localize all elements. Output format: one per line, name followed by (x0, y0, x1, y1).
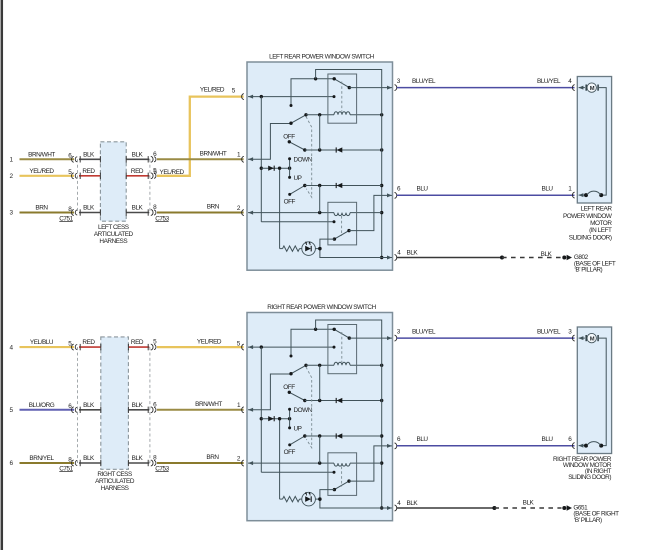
svg-text:BRN/WHT: BRN/WHT (28, 151, 55, 158)
wire vertical link upper right rear power window switch (319, 365, 321, 400)
wire YEL/RED circuit 2 (20, 175, 75, 177)
resistor R1 left rear power window switch (283, 246, 300, 251)
wire relay-1 coil line right rear power window switch (306, 364, 334, 366)
svg-text:ARTICULATED: ARTICULATED (95, 478, 135, 485)
right rear power window motor body (577, 327, 611, 454)
wire relay K2 common to pin4 right rear power window switch (320, 490, 392, 508)
wire BLU switch pin6 to motor pin1 (397, 194, 575, 196)
wire BRN/WHT from C753 to switch pin 1 (bottom) (157, 409, 244, 411)
wire diode D2 row left rear power window switch (305, 149, 382, 151)
svg-text:ARTICULATED: ARTICULATED (94, 231, 134, 238)
connector C753 symbol (151, 344, 153, 350)
wire BLK harness-left row 3 (79, 212, 100, 214)
wire relay-1 coil line left rear power window switch (306, 114, 334, 116)
wire YEL/RED from C753 to switch pin 5 (top) (157, 97, 244, 176)
wire BLK harness-left row 5 (79, 409, 101, 411)
resistor R1 right rear power window switch (283, 496, 300, 501)
harness box LEFT CESS ARTICULATED HARNESS (100, 142, 126, 221)
illumination branch wire right rear power window switch (279, 419, 281, 499)
wire motor bottom lead left rear power window motor (579, 194, 586, 196)
connector parens on left rear power window switch right edge (395, 85, 397, 91)
svg-text:LEFT REAR POWER WINDOW SWITCH: LEFT REAR POWER WINDOW SWITCH (269, 53, 375, 60)
svg-text:M: M (590, 336, 595, 342)
svg-text:DOWN: DOWN (294, 156, 313, 163)
svg-text:BLU/YEL: BLU/YEL (537, 328, 561, 335)
wire BLK harness-right row 5 (128, 409, 149, 411)
svg-text:(IN LEFT: (IN LEFT (589, 227, 612, 234)
svg-text:BLK: BLK (132, 402, 144, 409)
svg-text:BLK: BLK (407, 250, 419, 257)
wire pin5 feed inside left rear power window switch (248, 96, 334, 98)
motor symbol right rear power window motor (579, 337, 585, 339)
svg-text:BLK: BLK (83, 205, 95, 212)
svg-text:‘B’ PILLAR): ‘B’ PILLAR) (574, 517, 602, 524)
wire BLU switch pin6 to motor pin6 (bottom) (397, 445, 575, 447)
relay K1 armature right rear power window switch (334, 329, 349, 338)
wire BRN from C753 to switch pin 2 (157, 212, 244, 214)
switch blade middle left rear power window switch (289, 142, 305, 150)
wire top jumper left rear power window switch (316, 70, 382, 258)
switch blade upper (UP contact) left rear power window switch (291, 115, 306, 123)
wire BLK harness-right row 3 (126, 212, 149, 214)
svg-text:YEL/RED: YEL/RED (29, 168, 54, 175)
svg-text:BRN: BRN (207, 204, 220, 211)
wire BRN/YEL circuit 6 (20, 462, 75, 464)
svg-text:SLIDING DOOR): SLIDING DOOR) (568, 474, 611, 481)
rocker mechanical link left rear power window switch (306, 117, 312, 198)
svg-text:BLK: BLK (132, 455, 144, 462)
wire BLK harness-right row 1 (126, 158, 149, 160)
svg-text:OFF: OFF (283, 384, 295, 391)
wire pin6 output via relay K2 contact right rear power window switch (349, 446, 392, 481)
switch blade middle right rear power window switch (289, 392, 305, 400)
connector parens on left rear power window switch left edge (242, 94, 244, 100)
svg-text:BLK: BLK (132, 205, 144, 212)
svg-text:RED: RED (131, 339, 144, 346)
wire BRN/WHT circuit 1 (20, 158, 75, 160)
wire diode D3 row right rear power window switch (305, 435, 382, 437)
wire pin1 feed to switch blade inside right rear power window switch (248, 374, 291, 410)
wire RED harness-right row 2 (126, 175, 149, 177)
svg-text:YEL/RED: YEL/RED (200, 86, 225, 93)
svg-text:BLK: BLK (83, 455, 95, 462)
svg-text:HARNESS: HARNESS (99, 238, 127, 245)
wire to relay-2 coil contact inside left rear power window switch (261, 221, 334, 223)
wire RED harness-left row 4 (79, 346, 101, 348)
relay K1 mechanical link right rear power window switch (341, 332, 343, 362)
svg-text:RED: RED (82, 339, 95, 346)
svg-text:BLK: BLK (407, 500, 419, 507)
wire RED harness-left row 2 (79, 175, 100, 177)
fixed contact stub upper left rear power window switch (291, 79, 334, 106)
relay-1 coil right rear power window switch (334, 362, 350, 365)
relay K2 armature right rear power window switch (334, 481, 349, 490)
svg-text:BLU: BLU (542, 186, 554, 193)
relay K2 coil right rear power window switch (334, 463, 350, 466)
wire diode D3 row left rear power window switch (305, 185, 382, 187)
connector parens at right rear power window motor (572, 335, 574, 341)
relay K2 mechanical link right rear power window switch (341, 467, 343, 487)
wire motor internal left rear power window motor (599, 88, 606, 196)
wire pin2 / relay-2 coil line left rear power window switch (248, 212, 334, 214)
wire BLU/YEL switch pin3 to motor pin4 (397, 87, 575, 89)
wire vertical link lower left rear power window switch (319, 186, 321, 213)
LED lamp left rear power window switch (302, 242, 316, 256)
svg-text:POWER WINDOW: POWER WINDOW (563, 213, 613, 220)
harness box RIGHT CESS ARTICULATED HARNESS (101, 337, 129, 469)
wire pin3 output left rear power window switch (349, 87, 392, 89)
wire BLK switch pin4 to ground G651 (397, 507, 495, 509)
svg-text:YEL/RED: YEL/RED (197, 338, 222, 345)
svg-text:BRN/WHT: BRN/WHT (200, 150, 227, 157)
wire BLK harness-right row 6 (128, 462, 149, 464)
diode D1 wire with DOWN/UP common inside left rear power window switch (261, 167, 289, 169)
fixed contact stub upper right rear power window switch (291, 329, 334, 356)
svg-text:BLU/ORG: BLU/ORG (29, 402, 55, 409)
svg-text:RIGHT CESS: RIGHT CESS (97, 471, 132, 478)
wire pin2 / relay-2 coil line right rear power window switch (248, 462, 334, 464)
svg-text:BLK: BLK (132, 151, 144, 158)
wire top jumper right rear power window switch (316, 320, 382, 508)
wire vertical link lower right rear power window switch (319, 436, 321, 463)
svg-text:BLU: BLU (417, 436, 429, 443)
svg-text:DOWN: DOWN (294, 407, 313, 414)
wire vertical link upper left rear power window switch (319, 115, 321, 150)
svg-text:BLK: BLK (83, 402, 95, 409)
svg-text:BLK: BLK (83, 151, 95, 158)
connector C753 symbol (151, 156, 153, 162)
svg-text:BLU: BLU (417, 186, 429, 193)
svg-text:BLU/YEL: BLU/YEL (412, 328, 436, 335)
svg-text:MOTOR: MOTOR (590, 220, 612, 227)
svg-text:YEL/RED: YEL/RED (160, 169, 185, 176)
svg-text:BRN/WHT: BRN/WHT (195, 401, 222, 408)
relay K2 mechanical link left rear power window switch (341, 216, 343, 236)
svg-text:OFF: OFF (283, 134, 295, 141)
switch blade lower left rear power window switch (291, 186, 305, 194)
LED lamp right rear power window switch (302, 492, 316, 506)
switch blade upper (UP contact) right rear power window switch (291, 365, 306, 373)
relay K2 box right rear power window switch (328, 453, 357, 496)
relay-1 coil left rear power window switch (334, 112, 350, 115)
svg-text:OFF: OFF (284, 198, 296, 205)
connector parens on right rear power window switch right edge (395, 335, 397, 341)
rocker mechanical link right rear power window switch (306, 367, 312, 448)
relay K2 coil left rear power window switch (334, 213, 350, 216)
relay K2 armature left rear power window switch (334, 231, 349, 240)
wire motor internal right rear power window motor (599, 338, 606, 446)
svg-text:RED: RED (131, 168, 144, 175)
wire BLK harness-left row 6 (79, 462, 101, 464)
svg-text:LEFT CESS: LEFT CESS (98, 224, 129, 231)
svg-text:RIGHT REAR POWER WINDOW SWITCH: RIGHT REAR POWER WINDOW SWITCH (267, 304, 376, 311)
wire to relay-2 coil contact inside right rear power window switch (261, 471, 334, 473)
svg-text:OFF: OFF (284, 449, 296, 456)
relay K1 box left rear power window switch (328, 74, 357, 123)
wire BLU/YEL switch pin3 to motor pin3 (bottom) (397, 337, 575, 339)
svg-text:HARNESS: HARNESS (101, 485, 129, 492)
svg-text:SLIDING DOOR): SLIDING DOOR) (569, 234, 612, 241)
diode D1 wire with DOWN/UP common inside right rear power window switch (261, 418, 289, 420)
connector parens on right rear power window switch left edge (242, 344, 244, 350)
wire pin5 feed inside right rear power window switch (248, 346, 334, 348)
wire BLK harness-left row 1 (79, 158, 100, 160)
wire left vertical bus inside left rear power window switch (260, 97, 262, 222)
wire pin3 output right rear power window switch (349, 337, 392, 339)
wire left vertical bus inside right rear power window switch (260, 347, 262, 472)
wire YEL/BLU circuit 4 (20, 346, 75, 348)
illumination branch wire left rear power window switch (279, 168, 281, 248)
svg-text:BRN: BRN (35, 205, 48, 212)
svg-text:M: M (590, 86, 595, 92)
motor symbol left rear power window motor (579, 87, 585, 89)
wire pin6 output via relay K2 contact left rear power window switch (349, 195, 392, 230)
svg-text:BLU/YEL: BLU/YEL (412, 78, 436, 85)
svg-text:BLU/YEL: BLU/YEL (537, 78, 561, 85)
wire pin1 feed to switch blade inside left rear power window switch (248, 124, 291, 160)
wire diode D2 row right rear power window switch (305, 400, 382, 402)
left rear power window switch body (247, 62, 393, 270)
switch blade lower right rear power window switch (291, 436, 305, 444)
right rear power window switch body (247, 313, 393, 521)
svg-text:BRN: BRN (206, 454, 219, 461)
wire BRN from C753 to switch pin 2 (bottom) (157, 462, 244, 464)
svg-text:LEFT REAR: LEFT REAR (581, 206, 613, 213)
svg-text:UP: UP (294, 426, 302, 433)
wire motor bottom lead right rear power window motor (579, 445, 586, 447)
wire RED harness-right row 4 (128, 346, 149, 348)
connector C751 symbol (72, 156, 74, 162)
svg-text:UP: UP (294, 175, 302, 182)
relay K1 armature left rear power window switch (334, 79, 349, 88)
svg-text:BLU: BLU (542, 436, 554, 443)
wire BLK switch pin4 to ground G802 (397, 257, 502, 259)
connector C751 symbol (72, 344, 74, 350)
wire BLU/ORG circuit 5 (20, 409, 75, 411)
relay K2 box left rear power window switch (328, 202, 357, 245)
ground G651 (562, 506, 566, 510)
relay K1 mechanical link left rear power window switch (341, 82, 343, 112)
svg-text:BLK: BLK (541, 251, 553, 258)
wire BRN circuit 3 (20, 212, 75, 214)
svg-text:YEL/BLU: YEL/BLU (30, 339, 54, 346)
left rear power window motor body (577, 77, 611, 204)
ground G802 (562, 256, 566, 260)
wire BRN/WHT from C753 to switch pin 1 (157, 158, 244, 160)
svg-text:BLK: BLK (523, 500, 535, 507)
svg-text:‘B’ PILLAR): ‘B’ PILLAR) (574, 267, 602, 274)
wire relay K2 common to pin4 left rear power window switch (320, 239, 392, 257)
svg-text:BRN/YEL: BRN/YEL (29, 455, 54, 462)
connector parens at left rear power window motor (572, 85, 574, 91)
wire YEL/RED from C753 to switch pin 5 (bottom) (157, 346, 244, 348)
svg-text:RED: RED (82, 168, 95, 175)
relay K1 box right rear power window switch (328, 325, 357, 374)
